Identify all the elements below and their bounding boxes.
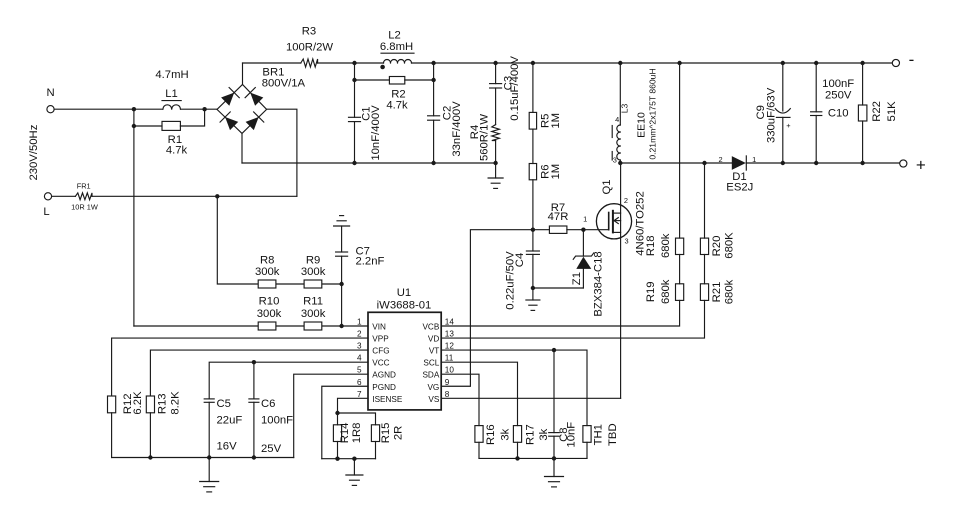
svg-text:10: 10 <box>445 366 455 375</box>
svg-text:C10: C10 <box>828 108 849 120</box>
junction (341,326) <box>339 324 343 328</box>
svg-text:330uF/63V: 330uF/63V <box>766 87 778 143</box>
junction (354,163) <box>352 161 356 165</box>
svg-text:N: N <box>47 87 55 99</box>
wire R15 branch <box>338 413 376 425</box>
svg-text:2.2nF: 2.2nF <box>356 256 385 268</box>
svg-text:EE10: EE10 <box>635 112 647 138</box>
svg-text:1: 1 <box>583 214 587 223</box>
ground under C5 <box>208 458 210 482</box>
capacitor C9 electrolytic <box>782 63 784 111</box>
svg-text:2R: 2R <box>392 426 404 440</box>
fusible resistor FR1 <box>75 193 92 200</box>
svg-text:4.7k: 4.7k <box>386 99 408 111</box>
svg-text:6: 6 <box>357 378 362 387</box>
svg-text:Z1: Z1 <box>571 272 583 285</box>
svg-text:6.2K: 6.2K <box>132 391 144 415</box>
junction (204,109) <box>202 107 206 111</box>
svg-text:L1: L1 <box>165 88 178 100</box>
svg-text:4.7mH: 4.7mH <box>155 69 188 81</box>
svg-text:R18: R18 <box>645 235 657 256</box>
svg-text:R19: R19 <box>645 281 657 302</box>
junction (433,163) <box>431 161 435 165</box>
junction (862,63) <box>860 61 864 65</box>
svg-text:4.7k: 4.7k <box>166 144 188 156</box>
terminal minus <box>892 59 899 66</box>
junction (354,80) <box>352 78 356 82</box>
svg-text:3: 3 <box>624 236 628 245</box>
svg-text:1: 1 <box>357 318 362 327</box>
resistor R6 <box>529 164 536 180</box>
svg-text:1M: 1M <box>550 113 562 129</box>
resistor R2 <box>389 77 404 85</box>
label 6.8mH underline <box>381 52 414 54</box>
resistor R17 <box>513 426 521 443</box>
svg-text:VD: VD <box>428 335 439 344</box>
thermistor TH1 <box>583 426 591 443</box>
svg-text:ES2J: ES2J <box>726 182 753 194</box>
svg-text:2: 2 <box>624 196 628 205</box>
junction (133,109) <box>132 107 136 111</box>
wire PGND pin6 drop <box>322 386 368 458</box>
transistor Q1 MOSFET <box>596 204 631 239</box>
svg-text:2: 2 <box>718 155 722 164</box>
BR1 diode lower-left <box>220 112 239 131</box>
svg-text:VCB: VCB <box>422 323 439 332</box>
resistor R15 <box>371 425 379 442</box>
junction (704,163) <box>702 161 706 165</box>
svg-text:3: 3 <box>613 155 617 164</box>
capacitor C2 <box>433 63 435 116</box>
svg-text:SCL: SCL <box>423 359 439 368</box>
L2 phase dot <box>380 65 385 70</box>
resistor R13 <box>146 396 154 413</box>
ground above C7 <box>334 225 350 227</box>
svg-text:R14: R14 <box>339 423 351 444</box>
junction (209,457) <box>207 455 211 459</box>
svg-text:800V/1A: 800V/1A <box>262 77 306 89</box>
wire L to FR1 <box>52 195 76 197</box>
svg-text:16V: 16V <box>217 440 238 452</box>
wire R6 to gate node <box>532 180 534 230</box>
resistor R5 <box>529 112 536 129</box>
wire top rail to R18 <box>679 63 681 238</box>
wire bridge right vertex drop <box>267 109 297 196</box>
svg-text:6.8mH: 6.8mH <box>380 41 413 53</box>
svg-text:10R 1W: 10R 1W <box>71 203 98 212</box>
svg-text:ISENSE: ISENSE <box>372 395 403 404</box>
wire bridge minus to ground rail <box>241 133 243 163</box>
svg-text:-: - <box>909 50 915 69</box>
svg-text:R3: R3 <box>302 26 316 38</box>
svg-text:VS: VS <box>428 395 439 404</box>
svg-text:L2: L2 <box>388 29 401 41</box>
wire node to R7 <box>533 229 550 231</box>
svg-text:TBD: TBD <box>607 423 619 446</box>
svg-text:300k: 300k <box>301 266 326 278</box>
wire AGND pin5 drop <box>294 374 368 457</box>
junction (495,163) <box>493 161 497 165</box>
svg-text:R20: R20 <box>711 236 723 257</box>
svg-text:13: 13 <box>445 330 455 339</box>
svg-text:C6: C6 <box>261 398 275 410</box>
svg-text:0.21mm^2x175T 860uH: 0.21mm^2x175T 860uH <box>648 68 658 159</box>
ground under C4 <box>532 288 534 300</box>
ground under C8 <box>553 458 555 476</box>
svg-text:100R/2W: 100R/2W <box>286 41 333 53</box>
svg-text:300k: 300k <box>257 308 282 320</box>
svg-text:25V: 25V <box>261 443 282 455</box>
svg-text:1M: 1M <box>550 164 562 180</box>
wire R20 to R21 <box>704 255 706 284</box>
junction (495,63) <box>493 61 497 65</box>
wire Z1 anode to ground node <box>533 287 583 289</box>
resistor R14 <box>333 425 341 442</box>
wire VS pin8 to Q1 source <box>441 397 620 399</box>
svg-text:4: 4 <box>357 354 362 363</box>
svg-text:R9: R9 <box>306 255 320 267</box>
wire R12 to ground rail <box>111 413 113 458</box>
svg-text:9: 9 <box>445 378 450 387</box>
svg-text:R8: R8 <box>260 255 274 267</box>
svg-text:3k: 3k <box>500 428 512 440</box>
junction (354,458) <box>352 457 356 461</box>
ground under R4 <box>495 163 497 178</box>
svg-text:R22: R22 <box>871 101 883 122</box>
wire R21 to VD <box>441 300 704 338</box>
svg-text:100nF: 100nF <box>261 414 293 426</box>
svg-text:R10: R10 <box>259 296 280 308</box>
svg-text:680k: 680k <box>660 279 672 304</box>
wire N input <box>54 108 163 110</box>
wire top rail R3 to L2 <box>318 62 384 64</box>
resistor R20 <box>700 238 708 254</box>
wire R1 branch left <box>134 109 162 126</box>
junction (816,163) <box>814 161 818 165</box>
wire N node to R10 row <box>134 325 258 327</box>
svg-text:8: 8 <box>445 390 450 399</box>
resistor R8 <box>258 280 276 288</box>
junction (217,196) <box>215 194 219 198</box>
capacitor C5 <box>204 398 214 400</box>
junction (620,163) <box>618 161 622 165</box>
junction (517,458) <box>515 456 519 460</box>
wire R2 branch right <box>405 79 434 81</box>
svg-text:47R: 47R <box>548 211 569 223</box>
resistor R3 <box>301 59 318 67</box>
terminal N <box>47 106 54 113</box>
resistor R16 <box>475 426 483 443</box>
wire VG pin9 to gate node <box>441 230 533 387</box>
junction (782,63) <box>781 61 785 65</box>
junction (679,63) <box>677 61 681 65</box>
svg-text:250V: 250V <box>825 89 852 101</box>
junction (341,284) <box>339 282 343 286</box>
svg-text:1: 1 <box>752 155 756 164</box>
svg-text:BZX384-C18: BZX384-C18 <box>592 251 604 316</box>
transformer T1 EE10 winding L3 <box>619 63 621 125</box>
wire C8 branch <box>553 350 555 433</box>
wire R8 to R9 <box>277 283 304 285</box>
svg-text:3: 3 <box>357 342 362 351</box>
wire R18 to R19 <box>679 255 681 284</box>
svg-text:7: 7 <box>357 390 362 399</box>
svg-text:+: + <box>916 155 926 174</box>
svg-text:4: 4 <box>615 115 619 124</box>
transformer core line <box>611 126 613 138</box>
wire SDA pin10 to R16 <box>441 374 479 425</box>
IC U1 iW3688-01 <box>368 312 441 410</box>
svg-text:CFG: CFG <box>372 347 389 356</box>
wire R9 to C7 node <box>323 283 342 285</box>
junction (816,63) <box>814 61 818 65</box>
ground under R14 R15 <box>353 459 355 475</box>
capacitor C6 <box>249 398 259 400</box>
svg-text:680k: 680k <box>724 279 736 304</box>
svg-text:FR1: FR1 <box>77 181 91 190</box>
svg-text:R15: R15 <box>380 423 392 444</box>
svg-text:R21: R21 <box>711 282 723 303</box>
resistor R9 <box>304 280 322 288</box>
wire output plus rail <box>746 162 900 164</box>
svg-text:VG: VG <box>427 383 439 392</box>
inductor L1 <box>163 105 181 109</box>
svg-text:0.15uF/400V: 0.15uF/400V <box>509 56 521 121</box>
svg-text:10nF/400V: 10nF/400V <box>370 105 382 161</box>
svg-text:3k: 3k <box>538 428 550 440</box>
svg-text:+: + <box>786 121 790 130</box>
svg-text:PGND: PGND <box>372 383 396 392</box>
svg-text:C5: C5 <box>217 398 231 410</box>
wire FR1 to bridge right leg <box>92 195 297 197</box>
capacitor C3 <box>495 63 497 84</box>
capacitor C1 <box>354 80 356 117</box>
junction (433,63) <box>431 61 435 65</box>
svg-text:33nF/400V: 33nF/400V <box>451 101 463 157</box>
wire R13 to ground rail <box>149 413 151 458</box>
junction (554,458) <box>552 456 556 460</box>
wire C7 node to VIN row <box>341 284 343 326</box>
svg-text:R16: R16 <box>485 424 497 445</box>
wire R11 to pin1 VIN <box>323 325 368 327</box>
svg-text:AGND: AGND <box>372 371 396 380</box>
diode D1 <box>732 156 746 170</box>
svg-text:12: 12 <box>445 342 455 351</box>
resistor R11 <box>304 322 322 330</box>
svg-text:VCC: VCC <box>372 359 389 368</box>
terminal plus <box>900 160 907 167</box>
svg-text:VT: VT <box>429 347 439 356</box>
wire VCC pin4 to C5 <box>209 362 368 399</box>
wire R7 to gate <box>567 229 609 231</box>
svg-text:1R8: 1R8 <box>351 423 363 444</box>
wire R5 to R6 <box>532 129 534 163</box>
wire R16 R17 C8 TH1 ground rail <box>478 442 480 458</box>
wire ISENSE pin7 to R14 <box>338 398 369 425</box>
wire top rail to R5 <box>532 63 534 112</box>
BR1 diode upper-left <box>220 88 239 107</box>
junction (133,126) <box>132 124 136 128</box>
junction (583,229) <box>581 228 585 232</box>
BR1 diode lower-right <box>245 112 264 131</box>
wire primary ground rail <box>242 162 496 164</box>
inductor L2 <box>384 60 412 64</box>
wire L rail to R8 row <box>217 196 257 284</box>
wire VPP pin2 to R12 <box>112 338 368 396</box>
resistor R18 <box>676 238 684 254</box>
wire R14 R15 ground rail <box>337 442 339 459</box>
resistor R22 <box>862 63 864 105</box>
svg-text:iW3688-01: iW3688-01 <box>377 300 432 312</box>
capacitor C4 <box>532 230 534 251</box>
svg-text:300k: 300k <box>301 308 326 320</box>
svg-text:2: 2 <box>357 330 362 339</box>
junction (782,163) <box>781 161 785 165</box>
junction (433,80) <box>431 78 435 82</box>
svg-text:230V/50Hz: 230V/50Hz <box>28 124 40 180</box>
svg-text:R11: R11 <box>303 296 323 308</box>
svg-text:680k: 680k <box>660 233 672 258</box>
svg-text:R13: R13 <box>156 393 168 414</box>
capacitor C7 <box>341 226 343 252</box>
svg-text:11: 11 <box>445 354 454 363</box>
svg-text:U1: U1 <box>397 287 411 299</box>
svg-text:0.22uF/50V: 0.22uF/50V <box>505 251 517 310</box>
svg-text:680K: 680K <box>724 232 736 259</box>
BR1 diode upper-right <box>245 88 264 107</box>
wire VCC ground rail <box>112 457 294 459</box>
terminal L <box>44 193 51 200</box>
wire node A down to VIN divider <box>133 126 135 326</box>
junction (862,163) <box>860 161 864 165</box>
junction (554,350) <box>552 348 556 352</box>
capacitor C8 <box>549 432 560 434</box>
junction (620,63) <box>618 61 622 65</box>
svg-text:10nF: 10nF <box>566 422 578 448</box>
wire switch node rail <box>620 162 732 164</box>
svg-text:L: L <box>43 206 49 218</box>
wire VT pin12 to TH1 <box>441 350 587 426</box>
junction (253,457) <box>252 455 256 459</box>
svg-text:14: 14 <box>445 318 455 327</box>
junction (354,63) <box>352 61 356 65</box>
junction (337,413) <box>335 411 339 415</box>
junction (253,362) <box>252 360 256 364</box>
svg-text:VPP: VPP <box>372 335 389 344</box>
wire top rail left <box>243 62 301 64</box>
wire top rail right <box>412 62 893 64</box>
wire rail to R20 <box>704 163 706 238</box>
wire R10 to R11 <box>277 325 304 327</box>
wire L1 to node A <box>181 108 218 110</box>
wire R19 to VCB <box>441 300 679 326</box>
label L1 underline <box>162 100 181 102</box>
resistor R21 <box>700 284 708 301</box>
wire C6 branch <box>253 362 255 399</box>
resistor R7 <box>549 226 567 233</box>
wire R1 branch right <box>180 109 204 126</box>
svg-text:Q1: Q1 <box>601 179 613 194</box>
resistor R1 <box>162 121 180 130</box>
wire SCL pin11 to R17 <box>441 362 517 425</box>
wire CFG pin3 to R13 <box>150 350 368 396</box>
wire bridge plus to top rail <box>242 63 244 85</box>
junction (150,457) <box>148 455 152 459</box>
svg-text:5: 5 <box>357 366 362 375</box>
junction (532,288) <box>531 286 535 290</box>
wire R2 branch left <box>355 63 390 80</box>
wire Q1 drain-source column <box>620 163 622 398</box>
capacitor C10 <box>815 63 817 112</box>
resistor R4 <box>495 88 497 125</box>
svg-text:300k: 300k <box>255 266 280 278</box>
junction (337,458) <box>335 457 339 461</box>
svg-text:8.2K: 8.2K <box>170 391 182 415</box>
svg-text:R17: R17 <box>525 424 537 445</box>
svg-text:51K: 51K <box>886 101 898 122</box>
svg-text:VIN: VIN <box>372 323 386 332</box>
zener diode Z1 <box>582 230 584 256</box>
bridge rectifier BR1 diamond <box>217 85 267 134</box>
svg-text:L3: L3 <box>620 104 630 114</box>
svg-text:SDA: SDA <box>422 371 439 380</box>
resistor R12 <box>108 396 116 413</box>
svg-text:TH1: TH1 <box>593 424 605 445</box>
junction (532,63) <box>531 61 535 65</box>
svg-text:560R/1W: 560R/1W <box>479 114 491 161</box>
svg-text:100nF: 100nF <box>822 78 854 90</box>
svg-text:22uF: 22uF <box>217 414 243 426</box>
resistor R19 <box>676 284 684 301</box>
resistor R10 <box>258 322 276 330</box>
junction (532,229) <box>531 228 535 232</box>
